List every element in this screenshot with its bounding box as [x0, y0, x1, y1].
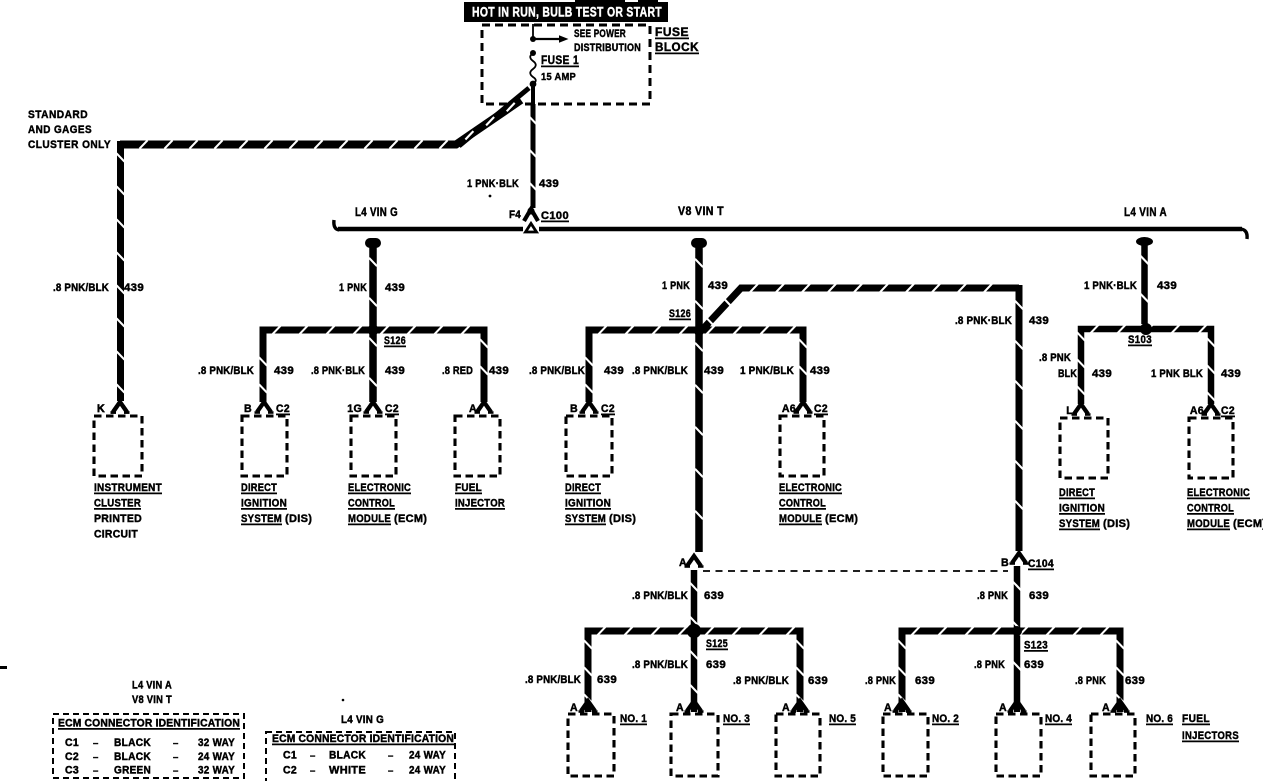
svg-text:24 WAY: 24 WAY [409, 765, 446, 777]
svg-text:V8 VIN T: V8 VIN T [678, 206, 724, 218]
svg-text:A: A [679, 557, 687, 569]
svg-text:S103: S103 [1128, 334, 1152, 346]
svg-text:A: A [469, 403, 477, 415]
svg-text:ELECTRONIC: ELECTRONIC [1187, 487, 1250, 499]
svg-text:439: 439 [1221, 368, 1241, 380]
svg-text:–: – [388, 766, 394, 777]
svg-text:639: 639 [597, 674, 617, 686]
svg-text:AND GAGES: AND GAGES [28, 124, 92, 136]
svg-text:439: 439 [708, 280, 728, 292]
svg-text:639: 639 [915, 675, 935, 687]
svg-text:1G: 1G [347, 403, 362, 415]
svg-text:NO. 6: NO. 6 [1146, 713, 1173, 725]
svg-text:A6: A6 [782, 403, 796, 415]
svg-text:L4 VIN G: L4 VIN G [341, 714, 384, 726]
svg-text:CLUSTER: CLUSTER [94, 498, 141, 510]
svg-text:B: B [570, 403, 578, 415]
svg-text:439: 439 [385, 365, 405, 377]
svg-text:C1: C1 [283, 750, 297, 762]
svg-text:439: 439 [1157, 280, 1177, 292]
svg-text:BLK: BLK [1058, 368, 1077, 380]
svg-text:A: A [782, 702, 790, 714]
svg-text:439: 439 [604, 365, 624, 377]
svg-text:S126: S126 [384, 335, 406, 347]
svg-text:F4: F4 [509, 209, 521, 221]
svg-text:BLACK: BLACK [114, 737, 151, 749]
svg-text:C2: C2 [283, 765, 297, 777]
svg-text:639: 639 [808, 675, 828, 687]
svg-text:DIRECT: DIRECT [565, 482, 601, 494]
svg-text:CIRCUIT: CIRCUIT [94, 529, 138, 541]
svg-text:NO. 4: NO. 4 [1045, 713, 1072, 725]
svg-text:439: 439 [124, 282, 144, 294]
svg-text:–: – [173, 752, 179, 763]
svg-text:–: – [388, 751, 394, 762]
svg-text:C104: C104 [1028, 558, 1054, 570]
svg-text:PRINTED: PRINTED [94, 513, 142, 525]
svg-text:(ECM): (ECM) [394, 513, 427, 525]
svg-text:CONTROL: CONTROL [348, 498, 395, 510]
svg-text:15 AMP: 15 AMP [541, 71, 576, 83]
svg-text:MODULE: MODULE [779, 513, 822, 525]
svg-text:.8 RED: .8 RED [442, 365, 473, 377]
svg-text:32 WAY: 32 WAY [198, 737, 235, 749]
svg-text:FUEL: FUEL [455, 482, 482, 494]
svg-text:SEE POWER: SEE POWER [574, 28, 626, 40]
svg-text:439: 439 [274, 365, 294, 377]
svg-text:BLACK: BLACK [329, 750, 366, 762]
svg-text:L: L [1066, 405, 1073, 417]
svg-text:ELECTRONIC: ELECTRONIC [348, 482, 411, 494]
svg-text:.8 PNK: .8 PNK [865, 675, 896, 687]
svg-text:GREEN: GREEN [114, 765, 151, 777]
svg-text:L4 VIN G: L4 VIN G [355, 207, 398, 219]
svg-text:A: A [570, 702, 578, 714]
svg-text:C3: C3 [65, 765, 79, 777]
svg-text:STANDARD: STANDARD [28, 109, 88, 121]
svg-text:639: 639 [1029, 590, 1049, 602]
svg-text:SYSTEM: SYSTEM [565, 513, 606, 525]
svg-text:ECM CONNECTOR IDENTIFICATION: ECM CONNECTOR IDENTIFICATION [58, 718, 240, 730]
svg-text:MODULE: MODULE [1187, 518, 1230, 530]
svg-text:IGNITION: IGNITION [1059, 503, 1105, 515]
svg-text:.8 PNK/BLK: .8 PNK/BLK [525, 674, 581, 686]
svg-text:C2: C2 [385, 403, 399, 415]
svg-text:C2: C2 [65, 751, 79, 763]
svg-text:439: 439 [539, 178, 559, 190]
svg-text:639: 639 [706, 659, 726, 671]
svg-text:CLUSTER ONLY: CLUSTER ONLY [28, 139, 111, 151]
svg-text:INSTRUMENT: INSTRUMENT [94, 482, 162, 494]
svg-text:1 PNK BLK: 1 PNK BLK [1151, 368, 1203, 380]
svg-text:DISTRIBUTION: DISTRIBUTION [574, 42, 641, 54]
svg-text:INJECTORS: INJECTORS [1182, 730, 1239, 742]
svg-text:639: 639 [1024, 659, 1044, 671]
svg-text:K: K [97, 403, 105, 415]
svg-text:–: – [173, 766, 179, 777]
svg-text:1 PNK/BLK: 1 PNK/BLK [740, 365, 794, 377]
svg-text:B: B [1001, 557, 1009, 569]
svg-text:439: 439 [489, 365, 509, 377]
svg-text:439: 439 [385, 282, 405, 294]
svg-text:(DIS): (DIS) [285, 513, 312, 525]
svg-text:CONTROL: CONTROL [779, 498, 826, 510]
svg-text:(ECM): (ECM) [825, 513, 858, 525]
svg-text:ECM CONNECTOR IDENTIFICATION: ECM CONNECTOR IDENTIFICATION [272, 733, 454, 745]
svg-text:.8 PNK: .8 PNK [1039, 352, 1071, 364]
svg-text:439: 439 [1029, 315, 1049, 327]
svg-text:DIRECT: DIRECT [241, 482, 277, 494]
svg-text:FUSE 1: FUSE 1 [541, 53, 579, 67]
svg-text:CONTROL: CONTROL [1187, 503, 1234, 515]
svg-text:A6: A6 [1190, 405, 1204, 417]
svg-text:NO. 5: NO. 5 [829, 713, 856, 725]
svg-text:C2: C2 [1221, 405, 1235, 417]
svg-text:NO. 1: NO. 1 [620, 713, 647, 725]
svg-text:–: – [310, 751, 316, 762]
svg-text:IGNITION: IGNITION [565, 498, 611, 510]
svg-text:NO. 3: NO. 3 [723, 713, 750, 725]
svg-text:DIRECT: DIRECT [1059, 487, 1095, 499]
svg-text:–: – [93, 752, 99, 763]
svg-text:L4 VIN A: L4 VIN A [1124, 207, 1167, 219]
svg-text:A: A [999, 702, 1007, 714]
svg-text:439: 439 [704, 365, 724, 377]
svg-text:–: – [173, 738, 179, 749]
svg-text:S125: S125 [706, 638, 728, 650]
svg-text:1 PNK: 1 PNK [662, 280, 690, 292]
svg-text:C2: C2 [814, 403, 828, 415]
svg-text:.8 PNK/BLK: .8 PNK/BLK [529, 365, 585, 377]
svg-text:HOT IN RUN, BULB TEST OR START: HOT IN RUN, BULB TEST OR START [472, 5, 662, 20]
svg-text:NO. 2: NO. 2 [932, 713, 959, 725]
svg-text:1 PNK: 1 PNK [339, 282, 367, 294]
svg-text:639: 639 [704, 590, 724, 602]
svg-text:A: A [884, 702, 892, 714]
svg-text:–: – [93, 738, 99, 749]
svg-text:BLOCK: BLOCK [655, 42, 699, 54]
svg-text:(ECM): (ECM) [1233, 518, 1263, 530]
svg-text:.8 PNK: .8 PNK [977, 590, 1008, 602]
svg-text:(DIS): (DIS) [1103, 518, 1130, 530]
svg-text:24 WAY: 24 WAY [198, 751, 235, 763]
svg-text:.8 PNK/BLK: .8 PNK/BLK [632, 659, 688, 671]
svg-text:A: A [1102, 702, 1110, 714]
svg-text:IGNITION: IGNITION [241, 498, 287, 510]
svg-text:24 WAY: 24 WAY [409, 750, 446, 762]
svg-text:C2: C2 [601, 403, 615, 415]
svg-text:.8 PNK/BLK: .8 PNK/BLK [632, 590, 688, 602]
svg-text:FUEL: FUEL [1182, 713, 1210, 725]
svg-text:(DIS): (DIS) [609, 513, 636, 525]
svg-text:INJECTOR: INJECTOR [455, 498, 505, 510]
svg-text:WHITE: WHITE [329, 765, 366, 777]
svg-text:L4 VIN A: L4 VIN A [132, 680, 172, 692]
svg-text:FUSE: FUSE [655, 27, 689, 39]
svg-text:1 PNK·BLK: 1 PNK·BLK [1084, 280, 1137, 292]
svg-text:SYSTEM: SYSTEM [241, 513, 282, 525]
svg-text:C1: C1 [65, 737, 79, 749]
svg-text:.8 PNK·BLK: .8 PNK·BLK [311, 365, 365, 377]
svg-text:.8 PNK/BLK: .8 PNK/BLK [632, 365, 688, 377]
svg-text:MODULE: MODULE [348, 513, 391, 525]
svg-text:B: B [244, 403, 252, 415]
svg-text:A: A [676, 702, 684, 714]
svg-text:.8 PNK·BLK: .8 PNK·BLK [955, 315, 1012, 327]
svg-text:C100: C100 [541, 210, 569, 222]
svg-text:439: 439 [810, 365, 830, 377]
svg-text:439: 439 [1092, 368, 1112, 380]
svg-text:.8 PNK/BLK: .8 PNK/BLK [53, 282, 109, 294]
svg-text:.8 PNK: .8 PNK [974, 659, 1005, 671]
svg-text:–: – [310, 766, 316, 777]
svg-text:SYSTEM: SYSTEM [1059, 518, 1100, 530]
svg-text:.8 PNK: .8 PNK [1075, 675, 1106, 687]
svg-text:.8 PNK/BLK: .8 PNK/BLK [198, 365, 254, 377]
svg-text:ELECTRONIC: ELECTRONIC [779, 482, 842, 494]
svg-text:BLACK: BLACK [114, 751, 151, 763]
svg-text:S123: S123 [1024, 640, 1048, 652]
svg-text:.8 PNK/BLK: .8 PNK/BLK [733, 675, 789, 687]
svg-text:S126: S126 [669, 308, 691, 320]
svg-text:–: – [93, 766, 99, 777]
svg-text:32 WAY: 32 WAY [198, 765, 235, 777]
svg-text:1 PNK·BLK: 1 PNK·BLK [467, 178, 519, 190]
svg-text:C2: C2 [276, 403, 290, 415]
svg-text:639: 639 [1125, 675, 1145, 687]
svg-text:V8 VIN T: V8 VIN T [132, 694, 172, 706]
